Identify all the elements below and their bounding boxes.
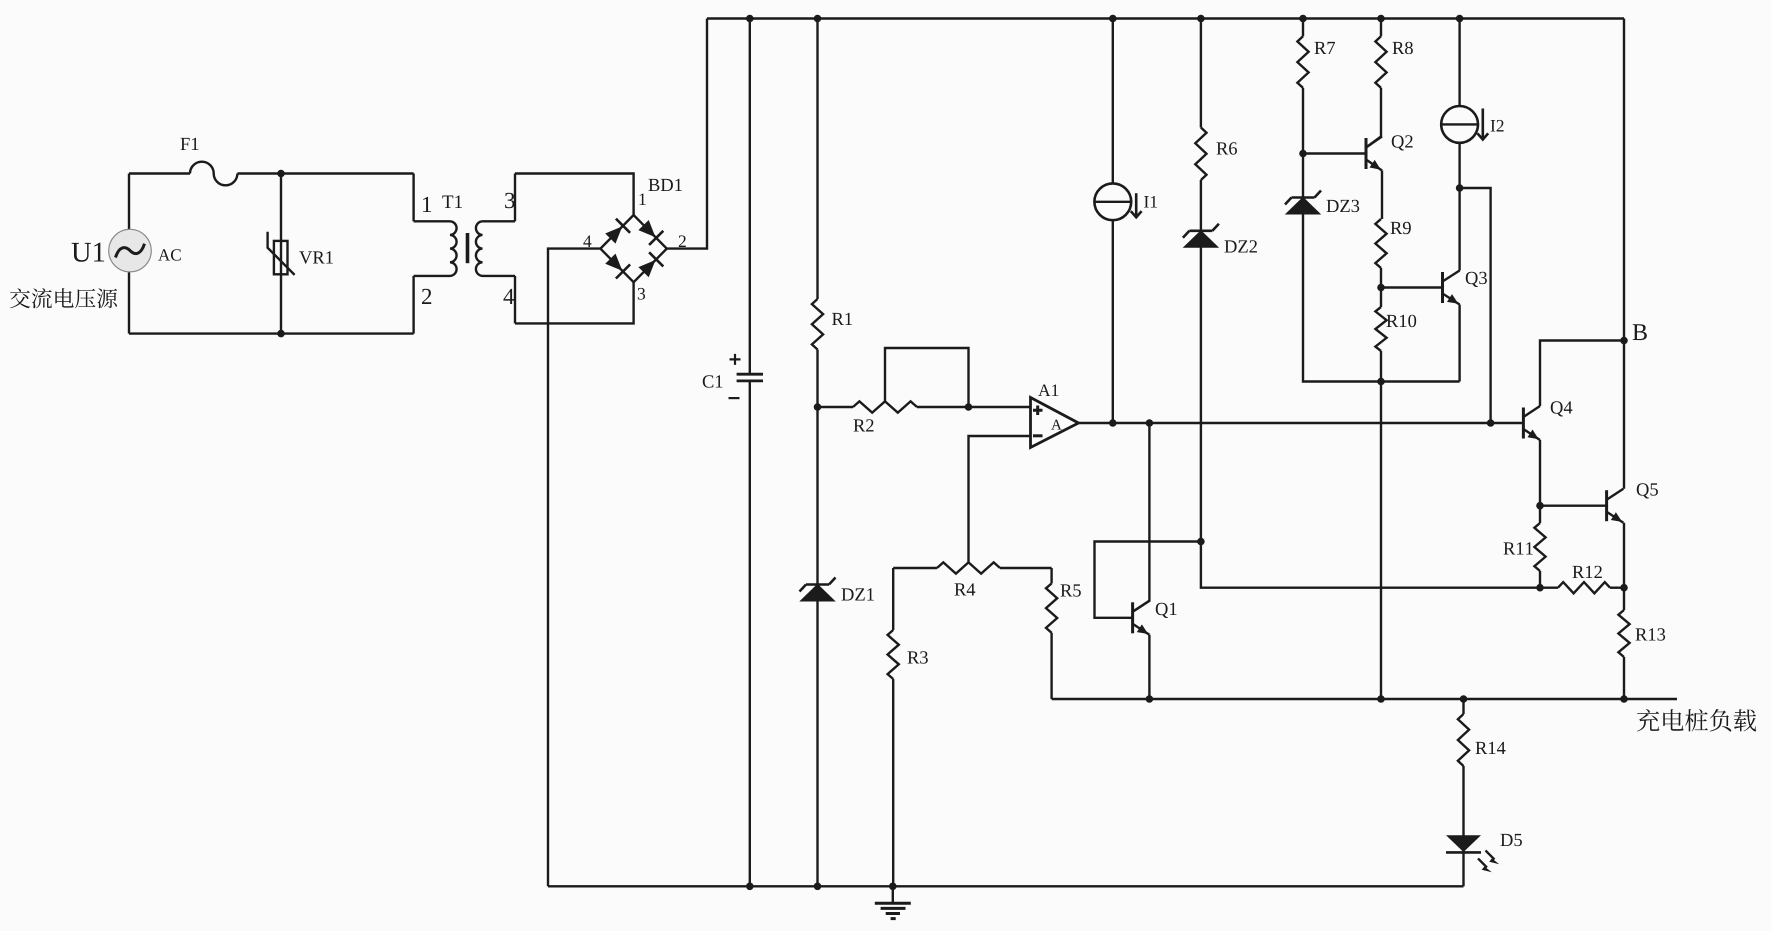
wire T1 pin2 lead: [412, 276, 414, 334]
wire bottom ground rail: [548, 885, 1464, 887]
zener diode DZ2: [1184, 231, 1218, 248]
resistor R4: [937, 562, 1000, 573]
wire DZ3 column: [1303, 88, 1460, 382]
node R7 top: [1299, 15, 1307, 23]
node Q1 collector junction: [1146, 419, 1154, 427]
wire R1 to DZ1: [816, 350, 818, 887]
resistor R6: [1195, 128, 1206, 181]
label A1 gain A: [1051, 420, 1062, 430]
label R4: [955, 583, 976, 595]
label R11: [1504, 542, 1533, 554]
node R1-R2 junction: [814, 403, 822, 411]
wire I2 bypass to output line: [1460, 188, 1491, 423]
label 充电桩负载: [1637, 709, 1756, 732]
wire DZ2 column: [1201, 180, 1558, 588]
label F1: [181, 138, 199, 150]
label R13: [1636, 628, 1666, 640]
node Q1 loop DZ2: [1197, 538, 1205, 546]
label BD1 pin 1: [640, 193, 646, 205]
op-amp A1: [1031, 398, 1079, 448]
capacitor C1: [749, 19, 751, 375]
label DZ3: [1327, 200, 1360, 212]
bridge rectifier BD1 diamond: [600, 215, 666, 282]
wire pin4 to bridge node3: [515, 282, 634, 323]
pot R2 wiper box: [885, 348, 969, 407]
varistor VR1: [280, 174, 282, 334]
label Q3: [1466, 272, 1487, 287]
node I2 top: [1456, 15, 1464, 23]
bridge diode 4-1: [605, 226, 622, 243]
label AC: [158, 249, 181, 260]
wire primary loop bottom: [129, 332, 414, 334]
wire R14 to D5: [1462, 766, 1464, 886]
node R14 top: [1460, 695, 1468, 703]
node bypass output junction: [1487, 419, 1495, 427]
label R9: [1391, 222, 1411, 234]
label 交流电压源: [10, 288, 117, 308]
node ground rail: [889, 883, 897, 891]
wire R2 left lead: [818, 406, 854, 408]
wire R14 lead top: [1462, 699, 1464, 714]
node B: [1620, 337, 1628, 345]
wire right drop to Q5 collector: [1623, 19, 1625, 489]
current source I1 arrow: [1135, 193, 1138, 217]
transistor Q2: [1365, 138, 1368, 169]
wire R5 top lead: [1050, 568, 1052, 583]
wire R3 to ground rail: [892, 679, 894, 886]
node Q1 emitter rail: [1146, 695, 1154, 703]
transistor Q5: [1605, 490, 1608, 521]
wire R13 bottom lead: [1623, 657, 1625, 699]
bridge diode 1-2: [638, 220, 655, 237]
label B: [1633, 324, 1647, 340]
label Q5: [1637, 483, 1658, 498]
label R1: [832, 313, 852, 325]
label DZ1: [842, 588, 874, 600]
node VR1 top: [277, 170, 285, 178]
wire Q2 base: [1303, 152, 1366, 154]
label R10: [1387, 315, 1417, 327]
wire R4 corner to R3: [892, 568, 894, 630]
label T1 pin 1: [423, 197, 431, 212]
wire bridge node2 to top rail: [667, 19, 707, 249]
node Q2 base junction: [1299, 150, 1307, 158]
node R11-R12 junction: [1536, 584, 1544, 592]
label BD1 pin 4: [583, 235, 591, 247]
label DZ2: [1225, 240, 1257, 252]
wire Q2 emitter to R9: [1381, 171, 1383, 220]
current source I2: [1458, 19, 1460, 107]
resistor R1: [812, 299, 823, 350]
node I2 bottom junction: [1456, 184, 1464, 192]
wire Q5 base: [1540, 505, 1607, 507]
label BD1 pin 2: [679, 235, 686, 247]
wire R7 lead: [1302, 19, 1304, 37]
wire R1 lead top: [816, 19, 818, 300]
wire Q4 collector to B: [1540, 341, 1624, 407]
transformer T1 core: [466, 233, 470, 263]
current source I1: [1112, 19, 1114, 184]
transistor Q3: [1441, 272, 1444, 303]
current source I2 arrow: [1482, 109, 1485, 140]
label R2: [854, 419, 874, 431]
node DZ1 bottom rail: [814, 883, 822, 891]
bridge diode 3-2: [638, 260, 655, 277]
wire T1 pin1 lead: [412, 174, 414, 222]
resistor R3: [888, 630, 899, 679]
label BD1 pin 3: [638, 288, 645, 300]
wire primary loop left side bottom: [128, 272, 130, 334]
wire Q3 collector: [1458, 188, 1460, 271]
bridge diode 4-3: [605, 254, 622, 271]
resistor R7: [1297, 36, 1308, 88]
resistor R9: [1375, 219, 1386, 268]
wire fuse to T1 pin1: [237, 172, 413, 174]
resistor R5: [1046, 583, 1057, 632]
potentiometer R2: [853, 401, 917, 412]
node R9-R10-Q3 junction: [1377, 284, 1385, 292]
label R14: [1476, 742, 1506, 754]
wire R12 right lead: [1610, 587, 1624, 589]
wire R8 lead: [1380, 19, 1382, 37]
label T1 pin 2: [422, 289, 431, 304]
label I2: [1491, 120, 1504, 132]
label R12: [1573, 566, 1602, 578]
node C1 bottom: [746, 883, 754, 891]
wire Q5 emitter drop: [1623, 523, 1625, 610]
wire Q1 collector: [1133, 423, 1150, 612]
wire A1 plus input: [969, 406, 1032, 408]
label Q2: [1392, 135, 1413, 150]
node R1 top: [814, 15, 822, 23]
wire primary loop left side top: [128, 174, 130, 230]
label BD1: [649, 179, 682, 191]
wire Q3 base: [1381, 286, 1443, 288]
zener diode DZ3: [1286, 198, 1320, 215]
node R12-R13 junction: [1620, 584, 1628, 592]
label R5: [1061, 584, 1081, 596]
label D5: [1501, 834, 1522, 846]
node R10 load rail: [1377, 695, 1385, 703]
AC source U1: [109, 229, 152, 272]
resistor R11: [1534, 523, 1545, 571]
wire A1 minus input: [969, 436, 1032, 562]
node I1 top: [1109, 15, 1117, 23]
wire load rail: [1052, 698, 1677, 700]
label T1 pin 3: [505, 193, 515, 208]
wire R9 to R10: [1380, 268, 1382, 307]
label Q1: [1156, 603, 1177, 618]
label R6: [1217, 142, 1237, 154]
wire pin3 to bridge node1: [515, 174, 634, 216]
resistor R8: [1375, 36, 1386, 88]
label C1: [703, 375, 723, 387]
led D5 emission arrows: [1486, 851, 1495, 860]
wire Q1 emitter drop: [1148, 635, 1150, 699]
resistor R13: [1618, 610, 1629, 657]
wire Q4 emitter drop: [1539, 440, 1541, 523]
node VR1 bottom: [277, 330, 285, 338]
label VR1: [299, 251, 333, 263]
led D5: [1446, 835, 1481, 852]
node R2 output: [965, 403, 973, 411]
zener diode DZ1: [801, 585, 835, 602]
wire R11 bottom lead: [1539, 571, 1541, 588]
label R3: [908, 651, 928, 663]
label T1: [442, 195, 462, 208]
wire R4 left lead: [893, 567, 937, 569]
fuse F1: [190, 162, 237, 186]
wire Q1 base loop: [1095, 542, 1201, 618]
transformer T1 primary coil: [414, 221, 457, 276]
wire A1 output: [1079, 422, 1523, 424]
wire top rail: [707, 17, 1624, 19]
node DZ3 line junction: [1377, 378, 1385, 386]
label T1 pin 4: [503, 289, 514, 304]
resistor R12: [1558, 582, 1610, 593]
resistor R10: [1375, 307, 1386, 351]
transistor Q1: [1131, 602, 1134, 633]
label U1: [72, 243, 105, 262]
wire bridge node4 to left drop: [548, 249, 600, 887]
label R8: [1393, 42, 1413, 54]
transistor Q4: [1522, 408, 1525, 439]
wire Q3 emitter: [1458, 305, 1460, 382]
label A1: [1038, 384, 1058, 396]
wire R4 right lead: [1000, 567, 1052, 569]
wire R10 bottom: [1380, 351, 1382, 699]
wire R5 to load rail: [1050, 633, 1052, 699]
wire top left to fuse: [129, 172, 190, 174]
label Q4: [1551, 401, 1573, 416]
wire R6 lead: [1200, 19, 1202, 128]
node R6 top: [1197, 15, 1205, 23]
node Q4-Q5-R11 junction: [1536, 502, 1544, 510]
node R8 top: [1377, 15, 1385, 23]
wire T1 pin3 lead: [514, 174, 516, 222]
transformer T1 secondary coil: [476, 221, 515, 276]
label I1: [1144, 196, 1157, 208]
label R7: [1315, 42, 1335, 54]
ground symbol: [892, 886, 894, 903]
resistor R14: [1458, 714, 1469, 766]
wire T1 pin4 lead: [514, 276, 516, 324]
node R13 load rail: [1620, 695, 1628, 703]
node A1 output I1: [1109, 419, 1117, 427]
wire R8 to Q2 collector: [1366, 88, 1381, 148]
wire R2 right lead: [917, 406, 969, 408]
node C1 top: [746, 15, 754, 23]
